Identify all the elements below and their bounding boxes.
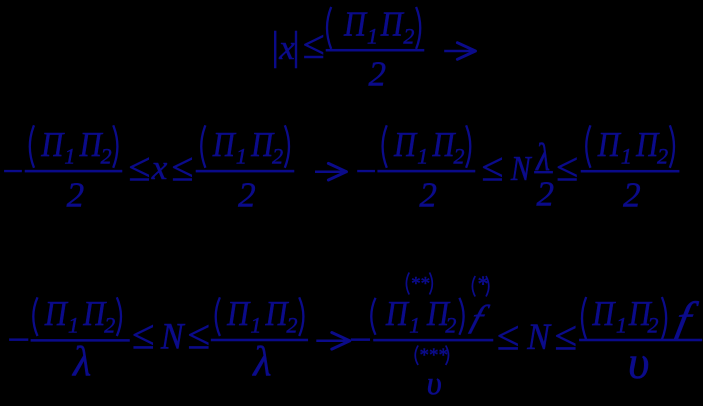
line2 lambda bar <box>534 171 552 173</box>
line3 frac2 bar <box>211 339 308 341</box>
line2 frac1 bar <box>25 170 122 172</box>
svg-text:Π: Π <box>597 126 622 164</box>
svg-text:υ: υ <box>427 366 442 401</box>
svg-text:N: N <box>510 150 533 189</box>
svg-text:λ: λ <box>71 339 91 385</box>
svg-text:−: − <box>347 317 374 362</box>
svg-text:x: x <box>151 148 168 187</box>
line3 frac2 numerator <box>216 297 220 336</box>
line3 frac4 bar <box>579 339 702 341</box>
svg-text:2: 2 <box>369 54 387 93</box>
svg-text:1: 1 <box>64 144 75 169</box>
line2 arrow <box>315 170 344 173</box>
svg-text:≤: ≤ <box>171 144 193 189</box>
svg-text:1: 1 <box>236 144 247 169</box>
line1 frac bar <box>326 49 424 51</box>
svg-text:Π: Π <box>40 126 65 164</box>
svg-text:≤: ≤ <box>303 22 325 67</box>
svg-text:υ: υ <box>628 337 650 389</box>
svg-text:2: 2 <box>537 174 555 213</box>
line1 numerator <box>327 7 331 49</box>
line1 abs bar left <box>274 31 276 68</box>
svg-text:N: N <box>526 316 552 358</box>
svg-text:≤: ≤ <box>497 313 520 359</box>
line2 frac2 bar <box>196 170 294 172</box>
svg-text:Π: Π <box>212 126 237 164</box>
svg-text:≤: ≤ <box>132 311 155 357</box>
line1 abs bar right <box>295 31 297 68</box>
svg-text:2: 2 <box>648 313 659 338</box>
svg-text:−: − <box>353 152 378 193</box>
line3 frac3 den sup <box>415 346 418 366</box>
svg-text:≤: ≤ <box>481 144 503 189</box>
svg-text:Π: Π <box>591 295 616 333</box>
svg-text:Π: Π <box>385 295 410 333</box>
svg-text:2: 2 <box>287 313 298 338</box>
svg-text:2: 2 <box>104 313 115 338</box>
line3 arrow <box>316 340 347 343</box>
svg-text:−: − <box>5 317 32 362</box>
line3 frac1 numerator <box>33 297 37 336</box>
svg-text:*: * <box>477 271 488 296</box>
line2 frac4 numerator <box>586 125 590 168</box>
svg-text:2: 2 <box>101 144 112 169</box>
line2 frac1 numerator <box>30 125 34 168</box>
svg-text:**: ** <box>410 274 430 295</box>
svg-text:2: 2 <box>453 144 464 169</box>
svg-text:≤: ≤ <box>128 144 150 189</box>
svg-text:Π: Π <box>44 295 69 333</box>
line2 frac4 bar <box>581 170 679 172</box>
line3 frac4 numerator <box>582 297 586 340</box>
svg-text:***: *** <box>419 345 448 366</box>
svg-text:1: 1 <box>367 24 378 49</box>
svg-text:2: 2 <box>623 175 641 214</box>
svg-text:≤: ≤ <box>556 144 578 189</box>
line1 arrow <box>444 50 473 53</box>
line3 frac3 sup1 <box>406 273 409 295</box>
svg-text:≤: ≤ <box>187 311 210 357</box>
svg-text:2: 2 <box>67 175 85 214</box>
svg-text:2: 2 <box>272 144 283 169</box>
svg-text:x: x <box>278 28 295 67</box>
svg-text:Π: Π <box>393 126 418 164</box>
svg-text:λ: λ <box>251 339 271 385</box>
line3 frac3 bar <box>374 339 494 341</box>
svg-text:Π: Π <box>380 6 405 44</box>
line3 frac1 bar <box>31 339 130 341</box>
svg-text:1: 1 <box>417 144 428 169</box>
svg-text:≤: ≤ <box>554 313 577 359</box>
svg-text:2: 2 <box>445 313 456 338</box>
svg-text:1: 1 <box>68 313 79 338</box>
svg-text:Π: Π <box>226 295 251 333</box>
svg-text:2: 2 <box>419 175 437 214</box>
svg-text:2: 2 <box>238 175 256 214</box>
svg-text:1: 1 <box>621 144 632 169</box>
line2 frac2 numerator <box>201 125 205 168</box>
svg-text:N: N <box>160 315 186 357</box>
svg-text:2: 2 <box>403 24 414 49</box>
svg-text:Π: Π <box>343 6 368 44</box>
svg-text:−: − <box>0 152 25 193</box>
svg-text:1: 1 <box>616 313 627 338</box>
svg-text:2: 2 <box>657 144 668 169</box>
line2 frac3 bar <box>378 170 475 172</box>
line3 frac3 sup2 <box>472 276 475 297</box>
svg-text:1: 1 <box>250 313 261 338</box>
line3 frac3 numerator <box>371 298 375 335</box>
line2 frac3 numerator <box>383 125 387 168</box>
svg-text:1: 1 <box>409 313 420 338</box>
